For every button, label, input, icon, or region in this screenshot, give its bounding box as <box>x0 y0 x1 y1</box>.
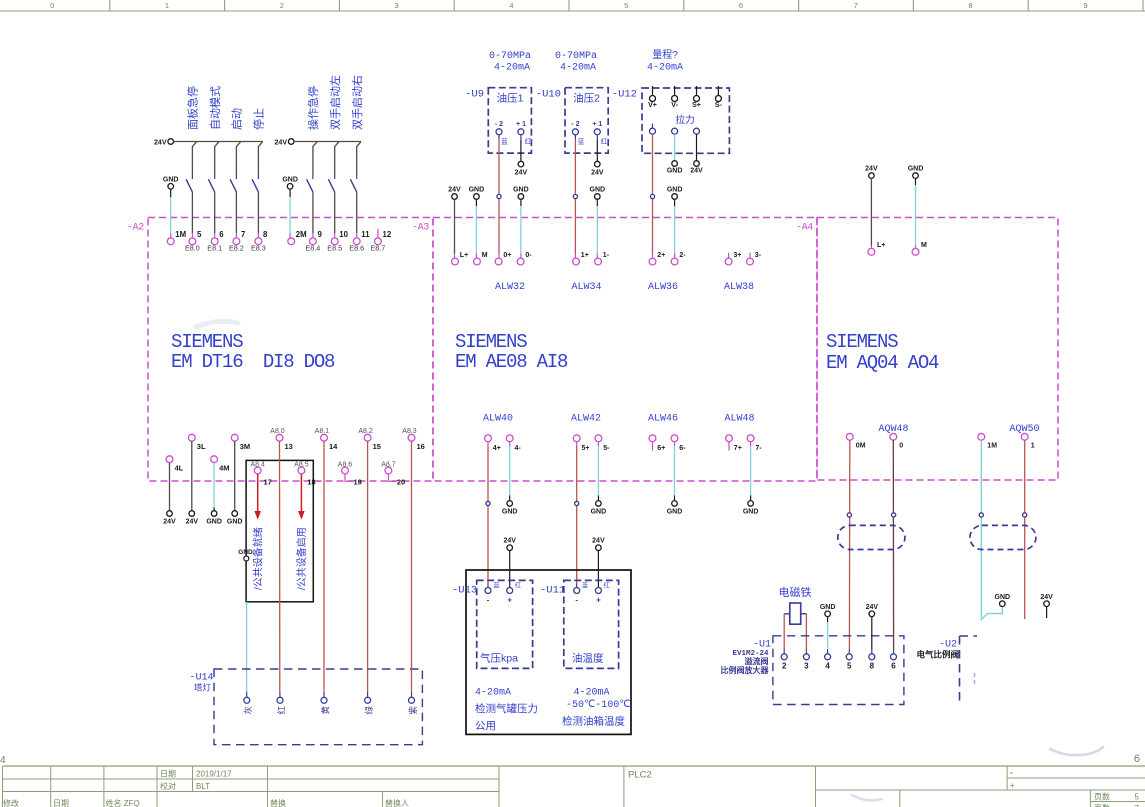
wire 5+ to U11 <box>576 442 578 446</box>
svg-text:BLT: BLT <box>196 782 210 791</box>
node wire 1M <box>979 513 983 517</box>
ground GND 7- <box>748 501 754 507</box>
wire 5- to GND <box>597 442 599 446</box>
svg-text:0+: 0+ <box>503 252 511 259</box>
svg-text:GND: GND <box>667 187 683 194</box>
svg-text:检测气罐压力: 检测气罐压力 <box>475 702 538 715</box>
ground GND 5- <box>596 501 602 507</box>
terminal 1- A3 <box>595 258 602 265</box>
svg-text:GND: GND <box>820 604 836 611</box>
svg-text:11: 11 <box>361 230 370 239</box>
wire 0 to U1 pin6 <box>892 440 894 649</box>
wire 7- to GND <box>750 442 752 446</box>
terminal 5 <box>189 238 196 245</box>
node wire 4+ <box>486 501 490 505</box>
switch E8.0 面板急停 <box>191 146 193 176</box>
svg-text:-U11: -U11 <box>540 585 565 597</box>
terminal 15 A2out <box>364 434 371 441</box>
svg-text:ALW40: ALW40 <box>483 414 513 425</box>
svg-text:S-: S- <box>715 102 723 109</box>
wire GND to 1M <box>170 197 172 233</box>
svg-text:油温度: 油温度 <box>572 652 604 665</box>
svg-text:4-20mA: 4-20mA <box>475 688 511 699</box>
wire 4- to GND <box>509 442 511 446</box>
svg-text:电气比例阀: 电气比例阀 <box>917 650 960 660</box>
svg-text:6: 6 <box>1134 753 1140 765</box>
svg-text:GND: GND <box>743 509 759 516</box>
terminal 1M A4 <box>978 433 985 440</box>
device box -U14 <box>214 669 422 745</box>
svg-text:3: 3 <box>395 1 399 10</box>
svg-text:24V: 24V <box>592 538 605 545</box>
terminal 5+ A3 <box>573 435 580 442</box>
svg-text:4-20mA: 4-20mA <box>494 63 530 74</box>
svg-text:-U9: -U9 <box>465 89 484 101</box>
svg-text:ALW36: ALW36 <box>648 282 678 293</box>
svg-text:S+: S+ <box>692 102 701 109</box>
svg-text:GND: GND <box>469 187 485 194</box>
wire 6- to GND <box>674 442 676 446</box>
module box -A3 <box>433 218 817 482</box>
wire U10-2 to 1+ <box>574 140 576 254</box>
enclosure box U13/U11 <box>466 570 631 734</box>
svg-text:红: 红 <box>601 137 608 146</box>
terminal 3L A2out <box>188 434 195 441</box>
watermark swoosh bottom <box>852 795 882 800</box>
svg-text:蓝: 蓝 <box>582 582 588 590</box>
svg-text:24V: 24V <box>515 170 528 177</box>
svg-text:E8.6: E8.6 <box>349 244 364 253</box>
wire 4L to 24V <box>169 463 171 511</box>
svg-text:0: 0 <box>899 443 903 450</box>
svg-text:7: 7 <box>241 230 245 239</box>
svg-text:0M: 0M <box>856 443 866 450</box>
wire 3M to GND <box>234 441 236 511</box>
terminal M A3 <box>474 258 481 265</box>
svg-text:A8.1: A8.1 <box>315 428 330 435</box>
sensor box -U13 <box>477 580 533 668</box>
solenoid coil <box>790 603 801 624</box>
svg-text:A8.2: A8.2 <box>358 428 373 435</box>
ground GND 3M <box>232 511 238 517</box>
svg-text:L+: L+ <box>877 242 885 249</box>
switch E8.1 自动模式 <box>214 146 216 176</box>
terminal 3- stub <box>749 253 751 258</box>
svg-text:/公共设备就绪: /公共设备就绪 <box>251 527 264 590</box>
wire U9-2 to 0+ <box>498 140 500 254</box>
svg-text:修改: 修改 <box>3 798 19 807</box>
svg-text:-A4: -A4 <box>796 223 813 234</box>
svg-text:24V: 24V <box>448 187 461 194</box>
sensor box -U9 <box>488 88 531 153</box>
svg-text:紫: 紫 <box>408 706 418 715</box>
wire U12 to 24V <box>696 134 698 161</box>
svg-text:5: 5 <box>197 230 202 239</box>
svg-text:-A2: -A2 <box>127 223 144 234</box>
wire U10+1 to 24V <box>596 140 598 161</box>
svg-text:M: M <box>482 252 488 259</box>
svg-text:24V: 24V <box>163 519 176 526</box>
ground GND 6- <box>672 501 678 507</box>
svg-text:V-: V- <box>671 102 678 109</box>
svg-text:V+: V+ <box>648 102 657 109</box>
svg-text:4M: 4M <box>219 464 229 473</box>
wire 13 to 红 <box>279 441 281 692</box>
svg-text:E8.1: E8.1 <box>207 244 222 253</box>
svg-text:+ 1: + 1 <box>592 121 602 128</box>
svg-text:灰: 灰 <box>243 706 253 715</box>
svg-text:ALW32: ALW32 <box>495 282 525 293</box>
svg-text:17: 17 <box>264 478 272 487</box>
pin 2 U1 <box>781 654 787 660</box>
svg-text:面板急停: 面板急停 <box>186 86 200 130</box>
svg-text:GND: GND <box>163 177 179 184</box>
pin 4 U1 <box>825 654 831 660</box>
svg-text:油压2: 油压2 <box>573 92 600 105</box>
svg-text:蓝: 蓝 <box>501 137 508 146</box>
svg-text:-U10: -U10 <box>536 89 561 101</box>
svg-text:8: 8 <box>263 230 268 239</box>
svg-text:SIEMENS: SIEMENS <box>171 331 243 353</box>
node wire 0M <box>847 513 851 517</box>
node U9 wire <box>497 194 501 198</box>
sensor box -U12 <box>642 88 729 153</box>
pin 黄 U14 <box>321 697 327 703</box>
svg-text:1-: 1- <box>603 252 610 259</box>
remnant dash U2 <box>974 673 976 686</box>
device box -U2 partial <box>959 636 961 705</box>
svg-text:红: 红 <box>603 582 609 590</box>
svg-text:-50℃-100℃: -50℃-100℃ <box>566 700 630 711</box>
ground GND 4M <box>211 511 217 517</box>
svg-text:9: 9 <box>318 230 323 239</box>
svg-text:2019/1/17: 2019/1/17 <box>196 770 232 779</box>
svg-text:24V: 24V <box>866 604 879 611</box>
svg-text:双手启动右: 双手启动右 <box>350 75 364 130</box>
wire 4+ to U13 <box>487 442 489 446</box>
svg-text:EM AQ04 AO4: EM AQ04 AO4 <box>826 352 939 374</box>
svg-text:4: 4 <box>509 1 513 10</box>
svg-text:24V: 24V <box>503 538 516 545</box>
svg-text:ALW48: ALW48 <box>724 414 754 425</box>
stub 6+ <box>652 442 654 451</box>
ruler top border <box>0 10 1145 12</box>
svg-text:20: 20 <box>397 478 405 487</box>
pin 2 U12 lower <box>672 128 678 134</box>
power 24V U12 <box>694 161 700 167</box>
wire 16 to 紫 <box>411 441 413 692</box>
svg-text:18: 18 <box>307 478 315 487</box>
node U10 wire <box>573 194 577 198</box>
svg-text:GND: GND <box>995 594 1011 601</box>
pin V+ U12 <box>652 86 654 96</box>
svg-text:-U12: -U12 <box>612 89 637 101</box>
svg-text:24V: 24V <box>275 139 288 146</box>
svg-text:13: 13 <box>285 442 293 451</box>
terminal 8 <box>255 238 262 245</box>
power 24V 3L <box>189 511 195 517</box>
wire coil to pin3 <box>805 614 807 650</box>
svg-text:E8.4: E8.4 <box>306 244 321 253</box>
svg-text:4-20mA: 4-20mA <box>647 63 683 74</box>
svg-text:GND: GND <box>591 509 607 516</box>
svg-text:2-: 2- <box>679 252 686 259</box>
wire 24V to L+ A4 <box>870 178 872 245</box>
node U12 wire <box>650 194 654 198</box>
switch E8.4 操作急停 <box>312 146 314 176</box>
terminal 3+ stub <box>728 253 730 258</box>
svg-text:4L: 4L <box>175 464 184 473</box>
wire GND to M A4 <box>915 178 917 185</box>
svg-text:3: 3 <box>804 662 809 671</box>
terminal 12 stub <box>377 229 379 238</box>
terminal 11 <box>353 238 360 245</box>
svg-text:红: 红 <box>276 706 286 715</box>
pin - U11 <box>574 588 580 594</box>
terminal 4L <box>166 456 173 463</box>
svg-text:- 2: - 2 <box>495 121 503 128</box>
terminal 4M <box>211 456 218 463</box>
svg-text:5: 5 <box>624 1 628 10</box>
svg-text:红: 红 <box>525 137 532 146</box>
svg-text:4-20mA: 4-20mA <box>574 688 610 699</box>
wire 1 stub <box>1024 440 1026 619</box>
wire 4M to GND <box>213 463 215 508</box>
svg-text:+: + <box>507 596 512 605</box>
pin 紫 U14 <box>409 697 415 703</box>
svg-text:2M: 2M <box>296 230 307 239</box>
wire coil to pin2 <box>783 614 785 650</box>
wire 14 to 黄 <box>323 441 325 692</box>
ferrite stadium 2 <box>970 525 1036 549</box>
terminal 9 <box>310 238 317 245</box>
wire 24V to U11+ <box>597 551 599 588</box>
svg-text:量程?: 量程? <box>652 49 678 61</box>
svg-text:3M: 3M <box>240 442 250 451</box>
svg-text:GND: GND <box>667 167 683 174</box>
svg-text:E8.7: E8.7 <box>371 244 386 253</box>
svg-text:GND: GND <box>667 509 683 516</box>
svg-text:1: 1 <box>165 1 169 10</box>
svg-text:0: 0 <box>50 1 54 10</box>
svg-text:-A3: -A3 <box>412 223 429 234</box>
svg-text:ALW38: ALW38 <box>724 282 754 293</box>
wire GND to 0- <box>520 199 522 206</box>
sensor box -U11 <box>564 580 619 668</box>
terminal 5- A3 <box>595 435 602 442</box>
svg-text:-: - <box>1010 768 1013 778</box>
svg-text:替换: 替换 <box>270 798 286 807</box>
svg-text:7: 7 <box>854 1 858 10</box>
module box -A4 <box>817 218 1058 481</box>
svg-text:GND: GND <box>206 519 222 526</box>
node wire 5+ <box>575 501 579 505</box>
svg-text:E8.0: E8.0 <box>185 244 200 253</box>
svg-text:页数: 页数 <box>1094 803 1110 807</box>
svg-text:7-: 7- <box>755 445 762 452</box>
svg-text:-U1: -U1 <box>753 640 771 651</box>
svg-text:6: 6 <box>739 1 743 10</box>
svg-text:电磁铁: 电磁铁 <box>779 586 812 599</box>
pin V- U12 <box>674 86 676 96</box>
pin 绿 U14 <box>365 697 371 703</box>
wire GND to 2M <box>289 197 291 233</box>
svg-text:24V: 24V <box>186 519 199 526</box>
device box -U1 <box>773 636 904 705</box>
svg-text:A8.3: A8.3 <box>402 428 417 435</box>
terminal 13 A2out <box>276 434 283 441</box>
svg-text:0-70MPa: 0-70MPa <box>555 51 597 62</box>
svg-text:8: 8 <box>969 1 973 10</box>
svg-text:GND: GND <box>282 177 298 184</box>
svg-text:EM AE08 AI8: EM AE08 AI8 <box>455 351 568 373</box>
svg-text:E8.5: E8.5 <box>327 244 342 253</box>
terminal 7- A3 <box>747 435 754 442</box>
terminal 16 A2out <box>408 434 415 441</box>
svg-text:15: 15 <box>373 442 381 451</box>
svg-text:2: 2 <box>280 1 284 10</box>
svg-text:12: 12 <box>383 230 392 239</box>
pin 3 U12 lower <box>694 128 700 134</box>
stub 7+ <box>728 442 730 451</box>
svg-text:操作急停: 操作急停 <box>306 86 320 130</box>
svg-text:公用: 公用 <box>475 720 496 732</box>
svg-text:3-: 3- <box>755 252 762 259</box>
svg-text:+ 1: + 1 <box>516 121 526 128</box>
wire 3L to 24V <box>191 441 193 511</box>
wire 24V to L+ <box>454 199 456 253</box>
svg-text:6: 6 <box>219 230 224 239</box>
svg-text:-: - <box>487 596 490 605</box>
svg-text:1M: 1M <box>175 230 186 239</box>
terminal 2+ A3 <box>649 258 656 265</box>
svg-text:M: M <box>921 242 927 249</box>
svg-text:2: 2 <box>782 662 787 671</box>
svg-text:ALW46: ALW46 <box>648 414 678 425</box>
svg-text:0-70MPa: 0-70MPa <box>489 51 531 62</box>
svg-text:绿: 绿 <box>364 706 374 715</box>
wire feed branches 2 <box>313 142 317 147</box>
svg-text:1: 1 <box>1031 443 1035 450</box>
svg-text:日期: 日期 <box>160 770 176 779</box>
svg-text:6+: 6+ <box>657 445 665 452</box>
svg-text:16: 16 <box>417 442 425 451</box>
terminal 2- A3 <box>671 258 678 265</box>
pin S+ U12 <box>696 86 698 96</box>
terminal 0M A4 <box>846 433 853 440</box>
pin + U13 <box>507 588 513 594</box>
svg-text:4+: 4+ <box>493 445 501 452</box>
svg-text:-U13: -U13 <box>452 585 477 597</box>
svg-text:PLC2: PLC2 <box>628 770 652 781</box>
wire 1M to GND <box>981 440 1002 619</box>
wire GND to U14 灰 <box>246 602 248 692</box>
svg-text:GND: GND <box>502 509 518 516</box>
power 24V U10 <box>595 161 601 167</box>
wire feed branches 1 <box>192 142 196 147</box>
switch E8.3 停止 <box>257 146 259 176</box>
svg-text:GND: GND <box>238 549 253 556</box>
wire 24V feed bus 2 <box>294 141 361 143</box>
terminal 0- A3 <box>517 258 524 265</box>
svg-text:24V: 24V <box>1040 594 1053 601</box>
svg-text:5+: 5+ <box>582 445 590 452</box>
power 24V feed 1 <box>168 139 174 145</box>
svg-text:3L: 3L <box>197 442 206 451</box>
svg-text:GND: GND <box>513 187 529 194</box>
watermark smudge A2 <box>196 321 238 327</box>
svg-text:2+: 2+ <box>657 252 665 259</box>
svg-text:1M: 1M <box>987 443 997 450</box>
pin 8 U1 <box>869 654 875 660</box>
svg-text:双手启动左: 双手启动左 <box>328 75 342 130</box>
wire 24V to U13+ <box>509 551 511 588</box>
terminal 2M <box>288 238 295 245</box>
svg-text:5: 5 <box>1135 793 1140 802</box>
svg-text:蓝: 蓝 <box>578 137 585 146</box>
svg-text:EM DT16 DI8 DO8: EM DT16 DI8 DO8 <box>171 351 335 373</box>
pin 灰 U14 <box>244 697 250 703</box>
svg-text:校对: 校对 <box>160 781 176 791</box>
terminal L+ A3 <box>452 258 459 265</box>
svg-text:3+: 3+ <box>733 252 741 259</box>
svg-text:红: 红 <box>515 582 521 590</box>
terminal 0+ A3 <box>495 258 502 265</box>
ground GND U12 <box>672 161 678 167</box>
svg-text:7+: 7+ <box>734 445 742 452</box>
terminal 7 <box>233 238 240 245</box>
pin 1 U12 lower <box>652 124 654 129</box>
svg-text:油压1: 油压1 <box>497 92 524 105</box>
terminal 4- A3 <box>506 435 513 442</box>
power 24V 4L <box>167 511 173 517</box>
svg-text:10: 10 <box>339 230 348 239</box>
svg-text:ALW42: ALW42 <box>571 414 601 425</box>
terminal 10 <box>331 238 338 245</box>
svg-text:GND: GND <box>908 166 924 173</box>
switch E8.2 启动 <box>235 146 237 176</box>
wire GND to 2- <box>674 199 676 206</box>
ferrite stadium 1 <box>838 525 905 549</box>
svg-text:9: 9 <box>1083 1 1087 10</box>
terminal 3M A2out <box>231 434 238 441</box>
pin + U11 <box>595 588 601 594</box>
sensor box -U10 <box>565 88 608 153</box>
svg-text:启动: 启动 <box>231 108 244 130</box>
svg-text:+: + <box>596 596 601 605</box>
svg-text:页数: 页数 <box>1094 792 1110 802</box>
terminal 0 A4 <box>890 433 897 440</box>
svg-text:8: 8 <box>870 662 875 671</box>
enclosure box interlock <box>246 460 313 601</box>
wire GND to pin4 <box>827 617 829 622</box>
terminal 6+ A3 <box>649 435 656 442</box>
pin S- U12 <box>717 86 719 96</box>
svg-text:0-: 0- <box>525 252 532 259</box>
svg-text:6-: 6- <box>679 445 686 452</box>
svg-text:姓名 ZFQ: 姓名 ZFQ <box>106 798 140 807</box>
svg-text:- 2: - 2 <box>571 121 579 128</box>
svg-text:拉力: 拉力 <box>675 113 695 126</box>
watermark swoosh right <box>1050 747 1103 755</box>
svg-text:GND: GND <box>590 187 606 194</box>
power 24V feed 2 <box>288 139 294 145</box>
wire 24V feed bus 1 <box>174 141 263 143</box>
svg-text:/公共设备启用: /公共设备启用 <box>295 527 308 590</box>
switch E8.6 双手启动右 <box>356 146 358 176</box>
svg-text:比例阀放大器: 比例阀放大器 <box>721 665 770 675</box>
svg-text:E8.2: E8.2 <box>229 244 244 253</box>
